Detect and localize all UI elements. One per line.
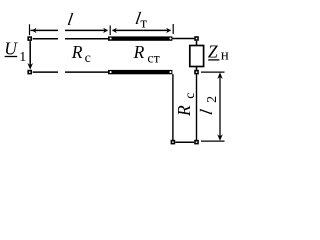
label l2 vertical bbox=[196, 96, 220, 116]
label l bbox=[66, 9, 74, 29]
svg-text:R: R bbox=[174, 105, 194, 117]
dimension l: line segment 2 bbox=[65, 29, 108, 31]
dimension l2: bottom tick bbox=[201, 140, 225, 142]
svg-text:R: R bbox=[133, 42, 145, 62]
dimension l2: down arrow bbox=[217, 134, 223, 141]
dimension lt: left arrow bbox=[112, 28, 117, 33]
wire: right vertical line (line continuation down) bbox=[172, 74, 174, 140]
node dot left (white) on lower bar bbox=[110, 71, 112, 73]
dimension l: line segment 1 bbox=[31, 29, 59, 31]
stub line upper thick bar bbox=[108, 36, 172, 40]
node dot left (white) on upper bar bbox=[110, 37, 112, 39]
wire: lower conductor thin segment 2 bbox=[65, 71, 109, 73]
terminal square bottom-left bbox=[171, 140, 176, 145]
arrow U1 (voltage, down) bbox=[29, 41, 31, 66]
dimension l: right arrow bbox=[103, 28, 108, 33]
svg-text:н: н bbox=[221, 48, 229, 64]
svg-text:2: 2 bbox=[205, 96, 220, 103]
terminal square lower-left bbox=[27, 70, 32, 75]
svg-text:R: R bbox=[71, 42, 83, 62]
label Rc vertical bbox=[174, 92, 198, 117]
svg-text:U: U bbox=[4, 38, 18, 58]
node dot right (white) on lower bar bbox=[169, 71, 171, 73]
node dot right (white) on upper bar bbox=[169, 37, 171, 39]
dimension l2: top tick bbox=[201, 71, 225, 73]
svg-text:с: с bbox=[85, 51, 91, 66]
label l_t bbox=[134, 8, 142, 28]
terminal square bottom-right bbox=[194, 140, 199, 145]
wire: upper conductor thin segment 2 bbox=[65, 38, 109, 40]
dimension l2: vertical line bbox=[219, 74, 221, 139]
stub line lower thick bar bbox=[108, 70, 172, 74]
wire: bottom connecting line bbox=[175, 141, 194, 143]
svg-text:l: l bbox=[196, 108, 216, 116]
wire: upper conductor to load bbox=[172, 38, 194, 40]
dimension l: left arrow bbox=[32, 28, 37, 33]
terminal square load bottom bbox=[194, 70, 199, 75]
terminal square upper-left bbox=[27, 36, 32, 41]
wire: load top lead bbox=[196, 41, 198, 46]
svg-text:т: т bbox=[140, 16, 147, 32]
dimension lt: line bbox=[113, 29, 171, 31]
load Zn rectangle bbox=[190, 46, 204, 67]
dimension lt: right arrow bbox=[166, 28, 171, 33]
wire: load bottom lead bbox=[196, 67, 198, 70]
dimension lt: right tick bbox=[172, 24, 174, 34]
terminal square upper-right (load top) bbox=[194, 36, 199, 41]
wire: lower conductor thin segment 1 bbox=[33, 71, 58, 73]
dimension l: left tick bbox=[29, 24, 31, 35]
wire: upper conductor thin segment 1 bbox=[33, 38, 58, 40]
svg-text:Z: Z bbox=[208, 42, 218, 62]
svg-text:l: l bbox=[66, 9, 74, 29]
svg-text:ст: ст bbox=[147, 51, 159, 66]
dimension l2: up arrow bbox=[217, 72, 223, 79]
svg-text:с: с bbox=[183, 92, 198, 98]
dimension l: middle tick bbox=[109, 26, 111, 36]
svg-text:1: 1 bbox=[19, 50, 26, 65]
wire: load vertical line down bbox=[196, 74, 198, 140]
